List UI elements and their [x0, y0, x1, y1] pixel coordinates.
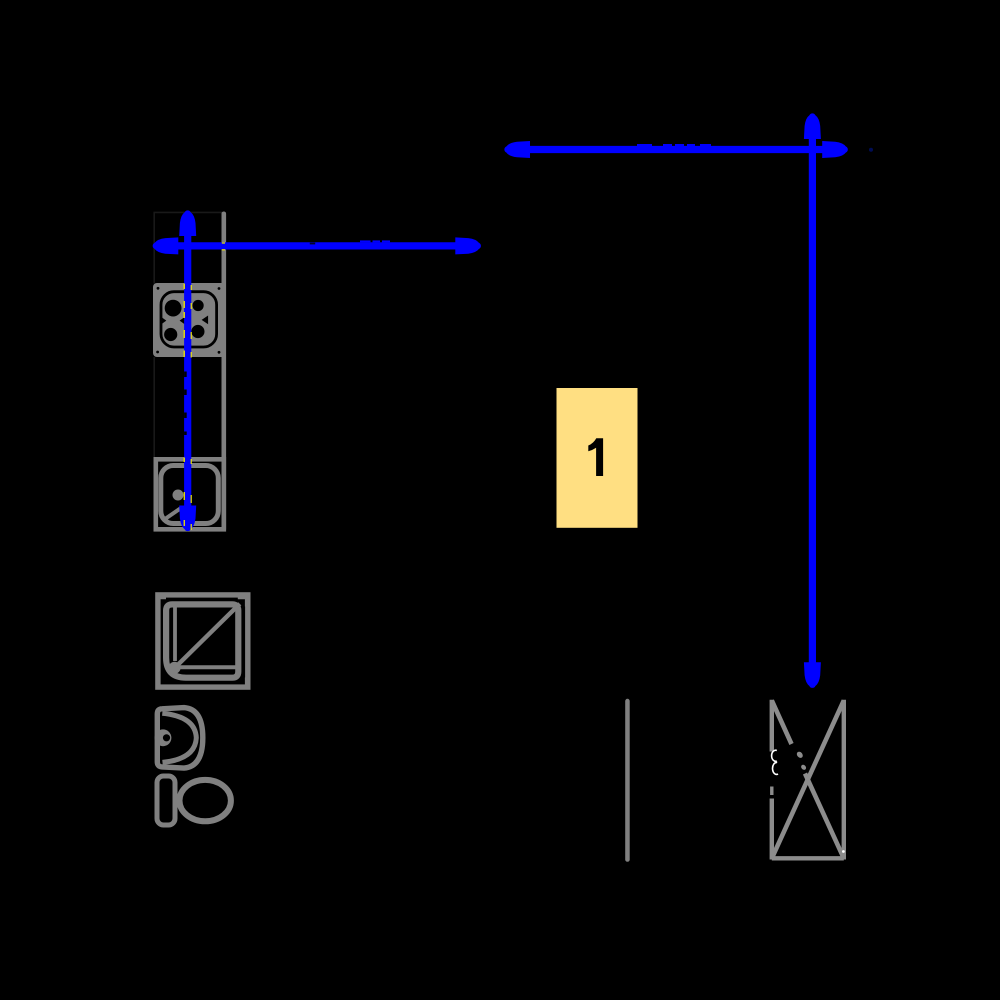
- dimension top horizontal arrowhead left: [504, 141, 530, 158]
- cooktop inner black ring: [161, 292, 217, 347]
- washbasin tap: [155, 729, 172, 746]
- toilet tank: [157, 776, 175, 825]
- cooktop corner dots: [157, 287, 160, 290]
- cooktop plate: [153, 283, 226, 357]
- sink outer rect: [156, 459, 224, 529]
- sink drain: [173, 490, 184, 501]
- yellow fringes at sink: [184, 458, 185, 463]
- yellow blend fringes where blue crosses gray (cooktop): [184, 242, 225, 530]
- dimension kitchen vertical line: [184, 214, 191, 528]
- shaft diagonal TL-BR upper segment: [772, 701, 792, 745]
- kitchen counter right edge: [222, 212, 227, 532]
- dimension kitchen horizontal blue text bumps: [360, 240, 371, 242]
- kitchen counter top section dark outline: [154, 212, 222, 283]
- dimension kitchen vertical black text notches: [184, 372, 187, 378]
- room label 1 box: [557, 388, 638, 528]
- shaft diagonal TL-BR lower segment: [805, 774, 844, 859]
- shaft diagonal TR-BL: [772, 701, 844, 859]
- shaft box left edge segments: [770, 700, 774, 752]
- cooktop triangle right: [202, 316, 209, 325]
- dimension right vertical arrowhead up: [804, 113, 821, 139]
- dimension kitchen vertical arrowhead up: [179, 210, 196, 236]
- dimension top horizontal blue text bumps: [637, 144, 652, 146]
- shower inner tray: [166, 604, 238, 677]
- cooktop burner top-left: [165, 300, 182, 317]
- dimension kitchen horizontal line: [158, 242, 477, 249]
- dark navy text notch on kitchen horizontal line: [310, 243, 315, 245]
- shower bottom line: [180, 665, 240, 669]
- wall segment line: [625, 699, 630, 862]
- shower diagonal: [176, 604, 240, 667]
- dimension kitchen horizontal arrowhead right: [455, 237, 481, 254]
- washbasin outer: [157, 708, 203, 769]
- dimension kitchen vertical arrowhead down: [179, 506, 196, 532]
- cooktop burner top-right: [193, 300, 204, 311]
- white text artifacts on shaft left edge: [772, 750, 777, 761]
- shower vertical line: [173, 605, 177, 662]
- dimension top horizontal line: [510, 146, 842, 153]
- shaft box right edge: [842, 700, 846, 860]
- dimension top horizontal arrowhead right: [822, 141, 848, 158]
- sink inner bowl: [161, 466, 219, 524]
- dimension right vertical line: [809, 118, 816, 683]
- room label 1 text (Arial-style glyph drawn as path): [588, 438, 603, 476]
- cooktop burner bottom-right: [191, 325, 204, 338]
- cooktop triangle middle: [180, 317, 185, 324]
- faint dark blue text dot right of top arrow: [869, 148, 873, 152]
- shaft box bottom edge: [772, 856, 844, 860]
- toilet bowl: [180, 780, 231, 821]
- yellow dots at counter edge crossing of horizontal arrow: [222, 242, 225, 243]
- shower drain: [169, 662, 181, 674]
- dimension right vertical arrowhead down: [804, 662, 821, 688]
- washbasin bowl: [162, 713, 196, 762]
- shower outer square: [158, 595, 248, 687]
- shaft diagonal dashes: [796, 751, 804, 760]
- kitchen counter middle section dark left edge: [153, 357, 155, 457]
- dimension kitchen horizontal arrowhead left: [153, 237, 179, 254]
- cooktop burner bottom-left: [164, 328, 177, 341]
- sink tap diagonal: [165, 508, 181, 519]
- shower corner brackets: [158, 598, 166, 606]
- cooktop triangle left: [161, 317, 166, 324]
